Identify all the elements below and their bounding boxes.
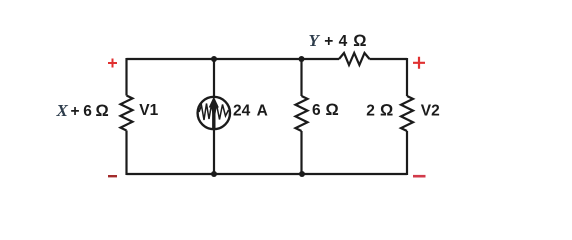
polarity minus bottom-right (red): [413, 175, 426, 178]
polarity plus top-right (red): [413, 57, 425, 69]
svg-text:24: 24: [233, 103, 251, 120]
svg-text:Ω: Ω: [326, 101, 339, 119]
svg-text:2: 2: [366, 103, 375, 120]
node junction dot bottom branch2: [211, 171, 217, 177]
resistor X+6 ohm (left vertical): [121, 96, 133, 131]
node junction dot top branch2: [211, 56, 217, 62]
svg-text:+: +: [71, 103, 80, 120]
svg-text:6: 6: [83, 103, 92, 120]
svg-text:A: A: [257, 103, 268, 120]
svg-text:Ω: Ω: [353, 32, 366, 50]
polarity minus bottom-left (red): [108, 175, 117, 177]
svg-text:6: 6: [312, 102, 321, 119]
wire top-right segment: [370, 58, 408, 60]
wire branch 3 bottom lead: [300, 131, 302, 174]
svg-text:4: 4: [339, 33, 348, 50]
svg-text:V1: V1: [139, 102, 158, 119]
svg-text:Ω: Ω: [96, 102, 109, 120]
current source squiggle: [199, 104, 229, 121]
wire left vertical bottom lead: [125, 131, 127, 176]
wire branch 3 top lead: [300, 59, 302, 96]
wire right vertical bottom lead: [406, 131, 408, 175]
svg-text:+: +: [324, 33, 333, 50]
svg-text:V2: V2: [421, 103, 440, 120]
wire bottom: [127, 173, 408, 175]
node junction dot top branch3: [299, 56, 305, 62]
svg-text:Y: Y: [309, 31, 321, 50]
wire right vertical top lead: [406, 58, 408, 96]
wire branch 2 top lead: [213, 59, 215, 97]
node junction dot bottom branch3: [299, 171, 305, 177]
resistor Y+4 ohm (horizontal, top right): [339, 53, 370, 65]
resistor 6 ohm (middle vertical): [296, 96, 308, 131]
current source I1 24A: circle: [198, 97, 230, 129]
wire top-left segment: [127, 58, 340, 60]
wire left vertical top lead: [125, 58, 127, 96]
current source arrow head: [209, 97, 219, 108]
svg-text:Ω: Ω: [380, 102, 393, 120]
current source arrow shaft: [212, 104, 215, 129]
svg-text:X: X: [56, 101, 69, 120]
polarity plus top-left (red): [108, 59, 117, 68]
wire branch 2 bottom lead: [213, 130, 215, 175]
resistor 2 ohm (right vertical): [401, 96, 413, 131]
